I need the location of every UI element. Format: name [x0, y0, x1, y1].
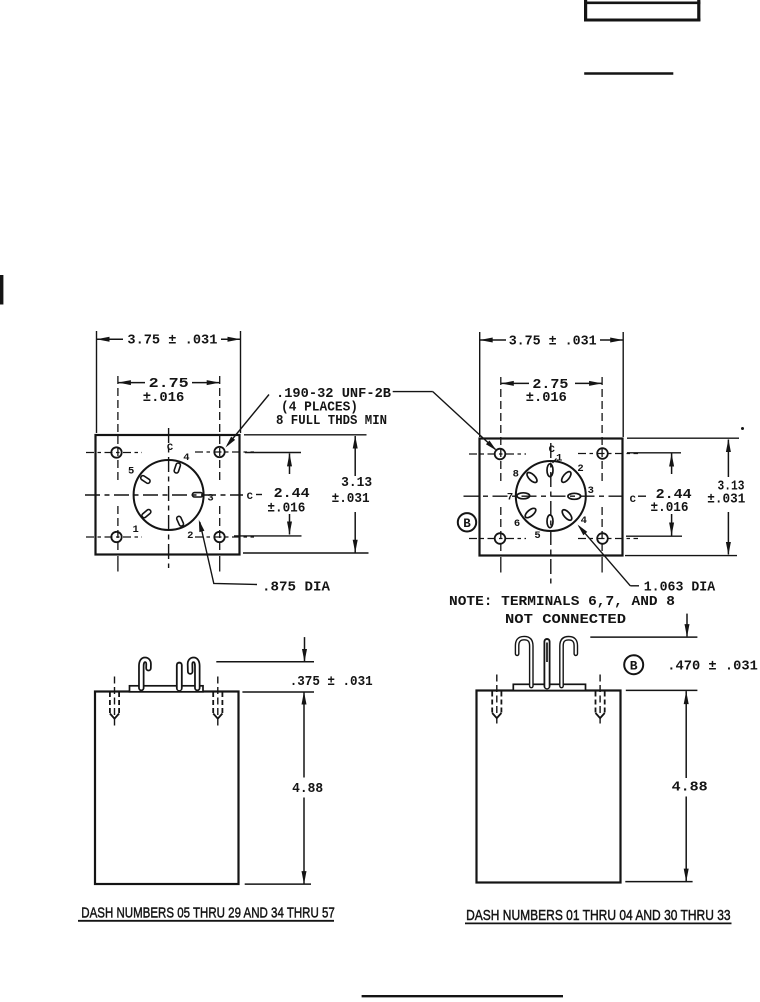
terminal hook C right view [562, 638, 576, 686]
terminal slot pin4 left [174, 462, 181, 473]
mounting hole R3 (bottom-left) [495, 533, 506, 544]
mounting stud left-view left (hidden) [110, 692, 119, 714]
dimension 4.88 right: bottom extension line [625, 881, 692, 883]
vertical centerline left circle [168, 428, 170, 568]
svg-text:±.016: ±.016 [267, 501, 305, 517]
svg-text:3: 3 [207, 492, 213, 504]
terminal slot pin2 right [560, 470, 573, 484]
dimension 3.75 right: extension lines [479, 332, 481, 437]
svg-text:DASH NUMBERS 01 THRU 04 AND 30: DASH NUMBERS 01 THRU 04 AND 30 THRU 33 [466, 908, 730, 924]
svg-text:1: 1 [556, 453, 562, 465]
svg-text:±.016: ±.016 [143, 390, 185, 406]
svg-text:.470 ± .031: .470 ± .031 [667, 658, 758, 674]
horizontal rule under title block [584, 72, 673, 75]
svg-text:±.031: ±.031 [332, 491, 370, 507]
mounting hole R2 (top-right) [597, 448, 608, 459]
svg-text:3.75 ± .031: 3.75 ± .031 [127, 333, 217, 349]
terminal post B right view [544, 642, 551, 687]
mounting stud right-view right (hidden) [596, 692, 605, 714]
terminal slot pin3 left [192, 493, 202, 497]
stray dot artifact [741, 427, 744, 430]
dimension 2.44 left: extension lines [245, 452, 301, 454]
svg-text:4: 4 [183, 452, 189, 464]
horizontal centerline right circle [464, 495, 628, 497]
dimension 3.75 right: dim line and arrows [480, 339, 506, 341]
mounting hole L3 (bottom-left) [111, 532, 121, 542]
dimension 2.44 right: dim line and arrows [671, 454, 673, 475]
dimension .470: top arrow [686, 614, 688, 637]
flange outline right view [480, 439, 623, 556]
svg-text:C: C [630, 494, 637, 506]
terminal circle left (.875 DIA) [134, 460, 204, 530]
flange outline left view [96, 435, 240, 555]
horizontal centerline left circle [85, 494, 243, 496]
dimension 4.88 left: bottom extension line [245, 883, 311, 885]
dimension 2.44 right: extension lines [627, 452, 681, 454]
hole centerline verticals right view [500, 377, 502, 481]
bottom center rule [362, 995, 563, 997]
thread callout leader to left view hole [228, 395, 270, 446]
svg-text:NOT CONNECTED: NOT CONNECTED [505, 612, 626, 628]
svg-text:±.016: ±.016 [651, 500, 689, 516]
dimension 4.88 right: line with up arrow [684, 691, 689, 704]
dimension 2.75 right: dim line and arrows [501, 382, 529, 384]
mounting plate right side view [513, 684, 585, 690]
hole centerline verticals left view [117, 376, 119, 480]
mounting stud right-view left (hidden) [492, 692, 501, 714]
title block fragment top right [584, 0, 700, 21]
svg-text:C: C [247, 491, 254, 503]
svg-text:5: 5 [128, 466, 134, 478]
svg-text:3.13: 3.13 [341, 475, 372, 491]
dimension 3.75 left: dim line and arrows [97, 338, 124, 340]
svg-text:B: B [463, 517, 471, 531]
svg-text:±.031: ±.031 [707, 491, 745, 507]
dimension 3.13 right: dim line and arrows [727, 440, 729, 478]
mounting hole R4 (bottom-right) [597, 533, 608, 544]
mounting hole L4 (bottom-right) [214, 532, 224, 542]
leader .875 DIA [200, 522, 257, 585]
svg-text:1.063 DIA: 1.063 DIA [644, 579, 716, 595]
svg-text:8: 8 [513, 469, 519, 481]
mounting hole R1 (top-left) [495, 449, 506, 460]
terminal slot pin2 left [176, 516, 184, 527]
dimension 4.88 left: line with up arrow [302, 692, 307, 705]
terminal hook A right view [517, 638, 531, 686]
dimension 3.13 left: extension lines [244, 434, 367, 436]
svg-text:.875 DIA: .875 DIA [262, 580, 331, 596]
thread callout leader to right view hole [393, 391, 433, 393]
svg-text:2: 2 [577, 463, 583, 475]
svg-text:NOTE: TERMINALS 6,7, AND 8: NOTE: TERMINALS 6,7, AND 8 [449, 594, 675, 610]
datum symbol B right view [458, 513, 476, 531]
mounting hole L2 (top-right) [214, 447, 224, 457]
terminal hook A left view [141, 660, 148, 688]
svg-text:±.016: ±.016 [526, 390, 567, 406]
svg-text:3: 3 [588, 485, 594, 497]
svg-text:5: 5 [534, 530, 540, 542]
dimension .375: lower extension line (can top) [242, 691, 314, 693]
revision change bar left margin [0, 275, 3, 305]
dimension 3.13 right: extension lines [627, 437, 739, 439]
terminal circle right (1.063 DIA) [516, 461, 586, 531]
terminal slot pin8 right [525, 471, 538, 484]
terminal slot pin7 right [517, 493, 530, 499]
svg-text:7: 7 [507, 492, 513, 504]
terminal post B left view [176, 665, 183, 688]
svg-text:.375 ± .031: .375 ± .031 [290, 674, 373, 690]
can body outline left side view [95, 692, 239, 885]
terminal slot pin5 right [547, 515, 553, 528]
terminal slot pin1 left [141, 509, 152, 519]
datum symbol B right side view [624, 655, 643, 674]
dimension 2.44 left: dim line and arrows [289, 453, 291, 474]
svg-text:4.88: 4.88 [672, 779, 708, 795]
dimension .470: lower extension line (can top) [626, 689, 698, 691]
leader 1.063 DIA [579, 526, 630, 586]
svg-text:6: 6 [514, 518, 520, 530]
svg-text:2: 2 [187, 530, 193, 542]
dimension 3.75 left: extension lines [96, 331, 98, 433]
dimension 3.13 left: dim line and arrows [354, 436, 356, 476]
svg-text:4.88: 4.88 [292, 781, 323, 797]
svg-text:DASH NUMBERS 05 THRU 29 AND 34: DASH NUMBERS 05 THRU 29 AND 34 THRU 57 [81, 905, 334, 921]
terminal hook C left view [190, 660, 197, 688]
vertical centerline right circle [550, 443, 552, 585]
dimension .470: upper extension line (terminal top) [590, 636, 697, 638]
svg-text:1: 1 [132, 524, 138, 536]
terminal slot pin5 left [140, 475, 151, 484]
dimension .375: top arrow [304, 637, 306, 661]
terminal slot pin1 right [547, 464, 553, 477]
dimension 2.75 left: dim line and arrows [118, 382, 145, 384]
terminal slot pin3 right [568, 493, 581, 499]
svg-text:4: 4 [581, 515, 587, 527]
svg-text:B: B [630, 659, 638, 674]
can body outline right side view [477, 691, 621, 883]
terminal slot pin4 right [561, 508, 574, 522]
mounting stud left-view right (hidden) [213, 692, 222, 714]
mounting plate left side view [130, 686, 204, 692]
svg-text:8 FULL THDS MIN: 8 FULL THDS MIN [276, 413, 387, 429]
svg-text:3.75 ± .031: 3.75 ± .031 [509, 333, 597, 349]
svg-text:C: C [549, 444, 556, 456]
dimension .375: upper extension line (terminal top) [216, 661, 314, 663]
terminal slot pin6 right [524, 507, 538, 520]
tick from pin1 slot to its number [553, 459, 557, 464]
svg-text:C: C [167, 442, 174, 454]
mounting hole L1 (top-left) [111, 447, 121, 457]
